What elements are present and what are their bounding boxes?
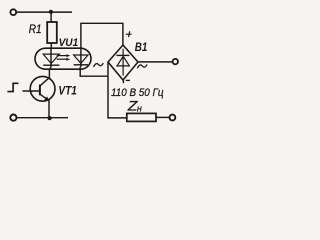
svg-text:B1: B1 [135,40,148,54]
svg-text:110 В 50 Гц: 110 В 50 Гц [111,87,164,99]
svg-text:VU1: VU1 [59,37,79,49]
svg-text:н: н [137,103,142,113]
svg-text:R1: R1 [29,22,42,36]
svg-text:VT1: VT1 [58,83,77,97]
